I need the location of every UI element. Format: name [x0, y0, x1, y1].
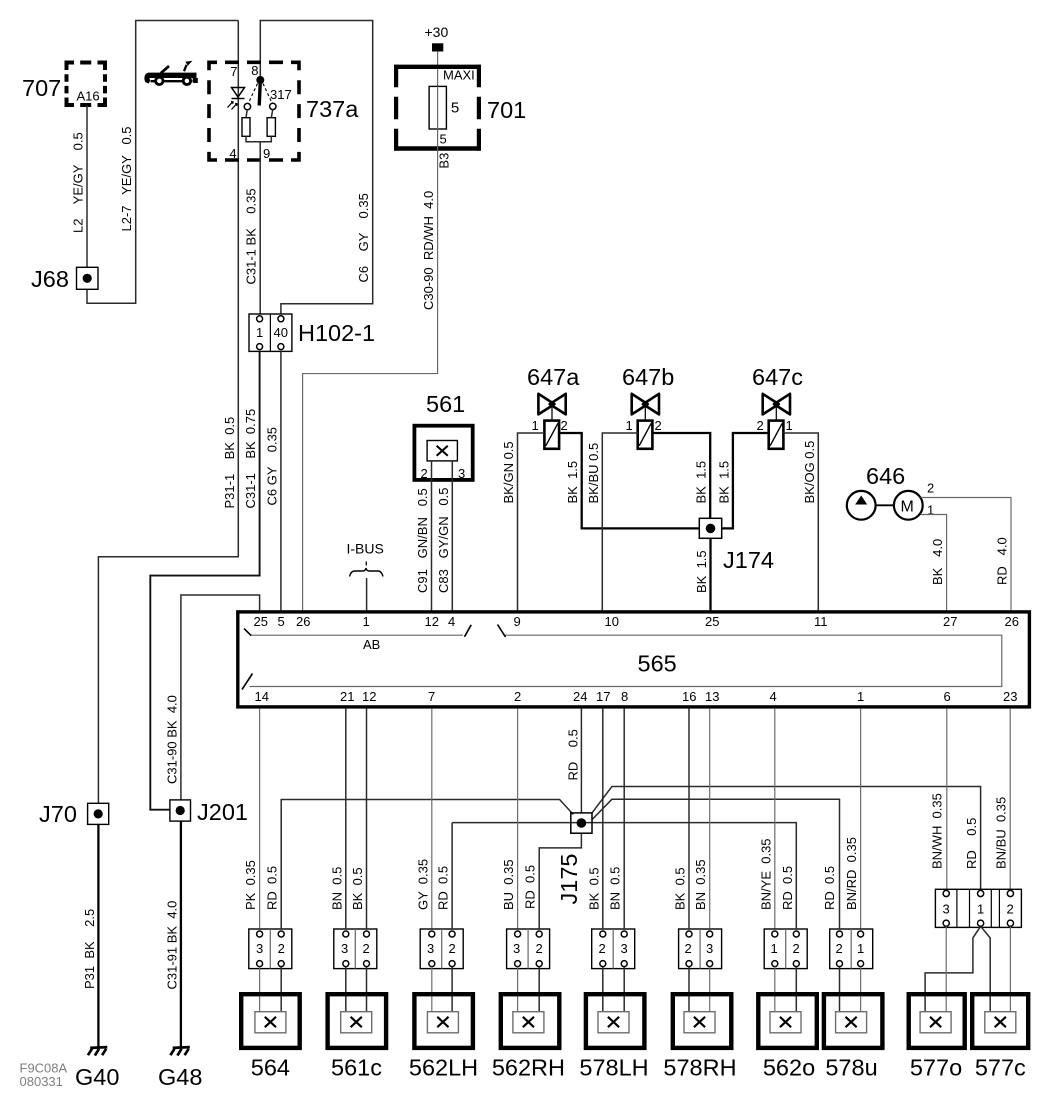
wire BK/GN 0.5 647a pin1 to 565 pin 9 — [518, 433, 545, 610]
wire 561c connector to lamp — [346, 967, 367, 1012]
wire RD 0.5 J175 right branch to 577 pin1 — [592, 787, 981, 890]
svg-text:RD 0.5: RD 0.5 — [565, 729, 580, 780]
svg-text:7: 7 — [428, 689, 435, 704]
svg-text:080331: 080331 — [20, 1074, 63, 1089]
svg-text:10: 10 — [605, 614, 619, 629]
wire BN/BU 0.35 565 pin23 to 577 pin2 — [1009, 708, 1011, 889]
lamp 578RH — [673, 994, 732, 1048]
wire 562o connector to lamp — [774, 967, 776, 1012]
svg-text:562LH: 562LH — [409, 1055, 478, 1081]
svg-text:8: 8 — [251, 63, 258, 78]
motor M 646 — [894, 491, 923, 520]
main connector inner line 565 — [250, 635, 1002, 686]
sensor 561 box — [414, 426, 472, 480]
wire BK 1.5 647b pin2 to J174 — [652, 433, 710, 518]
fuse element 701 — [429, 86, 446, 129]
wire BN/RD 0.35 565 pin1 to 578u — [860, 708, 862, 928]
svg-text:40: 40 — [274, 325, 288, 340]
ground G40 — [88, 1047, 107, 1056]
wire C31-91 BK 4.0 J201 to G48 — [180, 821, 182, 1047]
svg-text:C30-90 RD/WH 4.0: C30-90 RD/WH 4.0 — [421, 191, 436, 310]
svg-text:4: 4 — [770, 689, 777, 704]
contact circles — [244, 103, 250, 109]
svg-text:647c: 647c — [752, 364, 803, 390]
lamp 562LH — [414, 994, 473, 1048]
splice J174 — [699, 518, 721, 538]
svg-text:562o: 562o — [763, 1055, 815, 1081]
svg-text:L2 YE/GY 0.5: L2 YE/GY 0.5 — [71, 132, 86, 233]
svg-text:BK 0.5: BK 0.5 — [350, 867, 365, 910]
svg-text:646: 646 — [866, 463, 905, 489]
svg-text:1: 1 — [626, 418, 633, 433]
wire 578u connector to lamp — [839, 967, 841, 1012]
svg-text:J174: J174 — [723, 547, 774, 573]
svg-text:11: 11 — [814, 614, 828, 629]
svg-text:317: 317 — [270, 87, 292, 102]
svg-text:BK 0.5: BK 0.5 — [673, 867, 688, 910]
svg-text:2: 2 — [363, 941, 370, 956]
wire 578LH connector to lamp — [603, 967, 624, 1012]
svg-text:9: 9 — [514, 614, 521, 629]
wire C91 GN/BN 0.5 — [431, 461, 433, 611]
wire 562RH connector to lamp — [517, 967, 519, 1012]
svg-text:3: 3 — [513, 941, 520, 956]
lamp 577c — [972, 994, 1028, 1048]
wire 577 pin2 to 577c — [1009, 926, 1011, 1011]
svg-text:BN/YE 0.35: BN/YE 0.35 — [758, 838, 773, 910]
svg-text:27: 27 — [943, 614, 957, 629]
svg-text:9: 9 — [263, 146, 270, 161]
wire 578RH connector to lamp — [688, 967, 690, 1012]
connector H102-1 — [249, 314, 292, 351]
svg-text:701: 701 — [487, 97, 526, 123]
connector 578LH — [592, 929, 635, 969]
svg-text:J201: J201 — [197, 799, 248, 825]
svg-text:561c: 561c — [331, 1055, 382, 1081]
wire 562LH connector to lamp — [431, 967, 433, 1012]
connector 707 (dashed box) — [67, 63, 106, 106]
svg-text:RD 0.5: RD 0.5 — [523, 865, 538, 909]
wire BN/WH 0.35 565 pin6 to 577 pin3 — [946, 708, 948, 889]
wire RD 0.5 J175 left branch to 564 — [281, 800, 573, 929]
svg-text:577c: 577c — [975, 1055, 1026, 1081]
svg-text:BN 0.5: BN 0.5 — [608, 867, 623, 910]
svg-text:7: 7 — [230, 64, 237, 79]
wire BK 0.5 565 pin16 to 578RH — [688, 708, 690, 928]
splice J70 — [88, 803, 109, 824]
wire I-BUS to 565 pin 1 — [366, 578, 368, 610]
svg-text:B3: B3 — [437, 153, 452, 169]
connector 577 (3-pin) — [935, 889, 1021, 927]
svg-text:5: 5 — [451, 100, 459, 117]
svg-text:1: 1 — [927, 503, 934, 518]
wire BK 4.0 646 pin1 to 565 pin 27 — [921, 515, 947, 611]
svg-text:BK/BU 0.5: BK/BU 0.5 — [586, 443, 601, 504]
svg-text:3: 3 — [943, 902, 950, 917]
svg-text:BK 1.5: BK 1.5 — [694, 550, 709, 593]
switch unit 737a dashed box — [209, 62, 299, 160]
svg-text:2: 2 — [1007, 902, 1014, 917]
svg-text:J68: J68 — [31, 266, 69, 292]
svg-text:23: 23 — [1003, 689, 1017, 704]
svg-text:17: 17 — [596, 689, 610, 704]
svg-text:647b: 647b — [622, 364, 674, 390]
wire BN 0.35 565 pin13 to 578RH — [709, 708, 711, 928]
svg-text:RD 0.5: RD 0.5 — [265, 866, 280, 910]
svg-text:L2-7 YE/GY 0.5: L2-7 YE/GY 0.5 — [119, 126, 134, 231]
wire BK 0.5 565 pin17 to 578LH — [602, 708, 604, 928]
svg-text:2: 2 — [278, 941, 285, 956]
svg-text:26: 26 — [1005, 614, 1019, 629]
svg-text:564: 564 — [251, 1055, 290, 1081]
svg-text:BK 4.0: BK 4.0 — [930, 539, 945, 585]
svg-text:C31-91 BK 4.0: C31-91 BK 4.0 — [164, 901, 179, 990]
svg-text:3: 3 — [458, 466, 465, 481]
wire RD 0.5 565 pin24 to J175 — [580, 708, 582, 813]
lamp 562o — [758, 994, 817, 1048]
LED symbol in 737a — [232, 88, 245, 98]
svg-text:737a: 737a — [306, 96, 359, 122]
wire PK 0.35 565 pin14 to 564 — [259, 708, 261, 928]
svg-text:BK 1.5: BK 1.5 — [694, 461, 709, 504]
svg-text:2: 2 — [599, 941, 606, 956]
svg-text:3: 3 — [427, 941, 434, 956]
svg-text:RD 0.5: RD 0.5 — [964, 818, 979, 869]
svg-text:+30: +30 — [425, 24, 449, 40]
svg-text:2: 2 — [757, 418, 764, 433]
svg-text:C31-1 BK 0.35: C31-1 BK 0.35 — [244, 188, 259, 284]
svg-text:2: 2 — [836, 941, 843, 956]
svg-text:578RH: 578RH — [663, 1055, 736, 1081]
wire 737a pin 8 bridge to H102-1 pin 40 (C6 GY 0.35) — [260, 21, 372, 316]
ECU 565 box — [238, 612, 1030, 707]
connector 578RH — [679, 929, 722, 969]
lamp 578LH — [586, 994, 645, 1048]
splice J201 — [170, 800, 191, 821]
svg-text:6: 6 — [944, 689, 951, 704]
svg-text:BU 0.35: BU 0.35 — [501, 859, 516, 910]
svg-text:BK 0.5: BK 0.5 — [586, 867, 601, 910]
svg-text:565: 565 — [638, 651, 677, 677]
wire C31-1 BK 0.75 from H102-1 pin1 to J201 — [150, 351, 259, 809]
svg-text:1: 1 — [857, 941, 864, 956]
svg-text:5: 5 — [440, 132, 447, 147]
svg-text:PK 0.35: PK 0.35 — [243, 860, 258, 910]
svg-text:RD 0.5: RD 0.5 — [436, 866, 451, 910]
svg-text:M: M — [901, 499, 914, 516]
connector AB inner line — [251, 634, 463, 636]
svg-text:647a: 647a — [527, 364, 580, 390]
connector 564 — [249, 929, 292, 969]
svg-text:BN/RD 0.35: BN/RD 0.35 — [844, 837, 859, 910]
svg-text:RD 0.5: RD 0.5 — [780, 866, 795, 910]
svg-text:2: 2 — [685, 941, 692, 956]
connector 561c — [334, 929, 377, 969]
svg-text:2: 2 — [561, 418, 568, 433]
wire BU 0.35 565 pin2 to 562RH — [517, 708, 519, 928]
svg-text:BK/OG 0.5: BK/OG 0.5 — [802, 441, 817, 504]
car icon convertible — [144, 61, 197, 85]
svg-text:C6 GY 0.35: C6 GY 0.35 — [264, 427, 279, 506]
resistor right in 737a — [267, 118, 275, 137]
svg-text:3: 3 — [621, 941, 628, 956]
svg-text:578LH: 578LH — [579, 1055, 648, 1081]
splice J175 — [571, 813, 592, 833]
svg-text:BN/WH 0.35: BN/WH 0.35 — [929, 793, 944, 869]
svg-text:3: 3 — [341, 941, 348, 956]
svg-text:561: 561 — [426, 391, 465, 417]
svg-text:J175: J175 — [556, 854, 582, 905]
svg-text:13: 13 — [705, 689, 719, 704]
svg-text:H102-1: H102-1 — [298, 320, 375, 346]
ground G48 — [170, 1047, 189, 1056]
svg-text:1: 1 — [857, 689, 864, 704]
svg-text:2: 2 — [793, 941, 800, 956]
lamp 562RH — [501, 994, 560, 1048]
wire GY 0.35 565 pin7 to 562LH — [431, 708, 433, 928]
svg-text:RD 0.5: RD 0.5 — [822, 866, 837, 910]
wire BK/OG 0.5 647c pin1 to 565 pin 11 — [783, 433, 818, 610]
svg-text:578u: 578u — [825, 1055, 877, 1081]
wire BN/YE 0.35 565 pin4 to 562o — [774, 708, 776, 928]
connector 562RH — [507, 929, 550, 969]
wire C31-90 BK 4.0 from 565 pin25 to J201 — [181, 595, 260, 800]
svg-text:C83 GY/GN 0.5: C83 GY/GN 0.5 — [436, 488, 451, 594]
svg-text:I-BUS: I-BUS — [347, 541, 384, 557]
svg-text:2: 2 — [655, 418, 662, 433]
svg-text:3: 3 — [256, 941, 263, 956]
svg-text:707: 707 — [22, 75, 61, 101]
lamp 564 — [241, 994, 300, 1048]
svg-text:16: 16 — [682, 689, 696, 704]
svg-text:12: 12 — [362, 689, 376, 704]
svg-text:BK/GN 0.5: BK/GN 0.5 — [501, 441, 516, 503]
svg-text:1: 1 — [363, 614, 370, 629]
wire 564 connector to lamp — [259, 967, 261, 1012]
lamp 577o — [909, 994, 965, 1048]
wire BK 1.5 J174 to 647c pin2 — [722, 433, 770, 528]
svg-text:BN 0.35: BN 0.35 — [693, 859, 708, 910]
wire L2 YE/GY 0.5 — [86, 105, 88, 267]
lamp 578u — [824, 994, 883, 1048]
svg-text:C91 GN/BN 0.5: C91 GN/BN 0.5 — [415, 488, 430, 593]
svg-text:25: 25 — [254, 614, 268, 629]
svg-text:2: 2 — [514, 689, 521, 704]
svg-text:1: 1 — [977, 902, 984, 917]
svg-text:2: 2 — [927, 481, 934, 496]
switch dashed contact lines — [249, 84, 258, 104]
svg-text:1: 1 — [532, 418, 539, 433]
svg-text:8: 8 — [621, 689, 628, 704]
wire RD 0.5 J175 down branch to 562RH — [539, 833, 581, 928]
wire bridge J68 to 737a pin 7 — [87, 21, 238, 304]
wire RD 4.0 646 pin2 to 565 pin 26 — [921, 498, 1011, 611]
svg-text:BN/BU 0.35: BN/BU 0.35 — [994, 797, 1009, 869]
svg-text:P31-1 BK 0.5: P31-1 BK 0.5 — [222, 417, 237, 509]
I-BUS stub and brace — [365, 562, 367, 568]
svg-text:C31-90 BK 4.0: C31-90 BK 4.0 — [164, 695, 179, 784]
svg-text:2: 2 — [536, 941, 543, 956]
svg-text:21: 21 — [340, 689, 354, 704]
splice J68 — [77, 267, 99, 289]
svg-text:1: 1 — [786, 418, 793, 433]
svg-text:G48: G48 — [158, 1064, 202, 1090]
svg-text:2: 2 — [421, 466, 428, 481]
svg-text:P31 BK 2.5: P31 BK 2.5 — [82, 909, 97, 989]
svg-text:577o: 577o — [910, 1055, 962, 1081]
svg-text:5: 5 — [278, 614, 285, 629]
wire C6 GY 0.35 from H102-1 pin40 to 565 pin 5 — [280, 351, 282, 610]
wire BK 1.5 647a pin2 to J174 — [559, 433, 699, 528]
svg-text:24: 24 — [573, 689, 587, 704]
wire C30-90 RD/WH 4.0 — [303, 129, 438, 610]
svg-text:4: 4 — [229, 146, 236, 161]
resistor left in 737a — [242, 118, 250, 137]
svg-text:MAXI: MAXI — [443, 68, 475, 83]
switch lever 737a — [256, 76, 264, 84]
connector 562LH — [420, 929, 463, 969]
wire P31 BK 2.5 J70 to G40 — [97, 824, 99, 1047]
svg-text:AB: AB — [363, 637, 380, 652]
svg-text:1: 1 — [256, 325, 263, 340]
wire RD 0.5 J175 through line 562LH to 562o — [452, 823, 796, 929]
svg-text:GY 0.35: GY 0.35 — [415, 859, 430, 910]
svg-text:26: 26 — [296, 614, 310, 629]
svg-text:2: 2 — [449, 941, 456, 956]
wire BN 0.5 565 pin21 to 561c — [345, 708, 347, 928]
svg-text:BK 1.5: BK 1.5 — [716, 461, 731, 504]
svg-text:G40: G40 — [75, 1064, 119, 1090]
wire BK 0.5 565 pin12 to 561c — [366, 708, 368, 928]
fuse holder 701 box — [394, 67, 481, 149]
wire RD 0.5 J175 right branch to 578u — [592, 799, 840, 928]
wire split from 577 pin1 to 577o and 577c — [925, 926, 990, 1011]
svg-text:12: 12 — [425, 614, 439, 629]
svg-text:C31-1 BK 0.75: C31-1 BK 0.75 — [243, 409, 258, 509]
svg-text:BK 1.5: BK 1.5 — [565, 461, 580, 504]
wire P31-1 through 737a (pin7 to pin4) down to J70 branch — [98, 21, 238, 804]
svg-text:25: 25 — [705, 614, 719, 629]
svg-text:1: 1 — [771, 941, 778, 956]
svg-text:14: 14 — [255, 689, 269, 704]
lamp 561c — [328, 994, 387, 1048]
svg-text:A16: A16 — [77, 89, 100, 104]
wire 577 pin3 to 577o — [945, 926, 947, 1011]
svg-text:C6 GY 0.35: C6 GY 0.35 — [356, 193, 371, 282]
svg-text:4: 4 — [448, 614, 455, 629]
svg-text:BN 0.5: BN 0.5 — [329, 867, 344, 910]
connector 578u — [830, 929, 873, 969]
wire C83 GY/GN 0.5 — [451, 461, 453, 611]
wire BN 0.5 565 pin8 to 578LH — [623, 708, 625, 928]
svg-text:3: 3 — [706, 941, 713, 956]
wire BK 1.5 J174 to 565 pin 25 — [709, 538, 711, 610]
wire +30 to fuse 701 — [437, 52, 439, 87]
connector 562o — [764, 929, 807, 969]
svg-text:562RH: 562RH — [492, 1055, 565, 1081]
svg-text:J70: J70 — [39, 801, 77, 827]
svg-text:RD 4.0: RD 4.0 — [995, 537, 1010, 585]
wires contacts to resistors and join to pin 9 — [246, 110, 273, 315]
wire BK/BU 0.5 647b pin1 to 565 pin 10 — [602, 433, 638, 610]
